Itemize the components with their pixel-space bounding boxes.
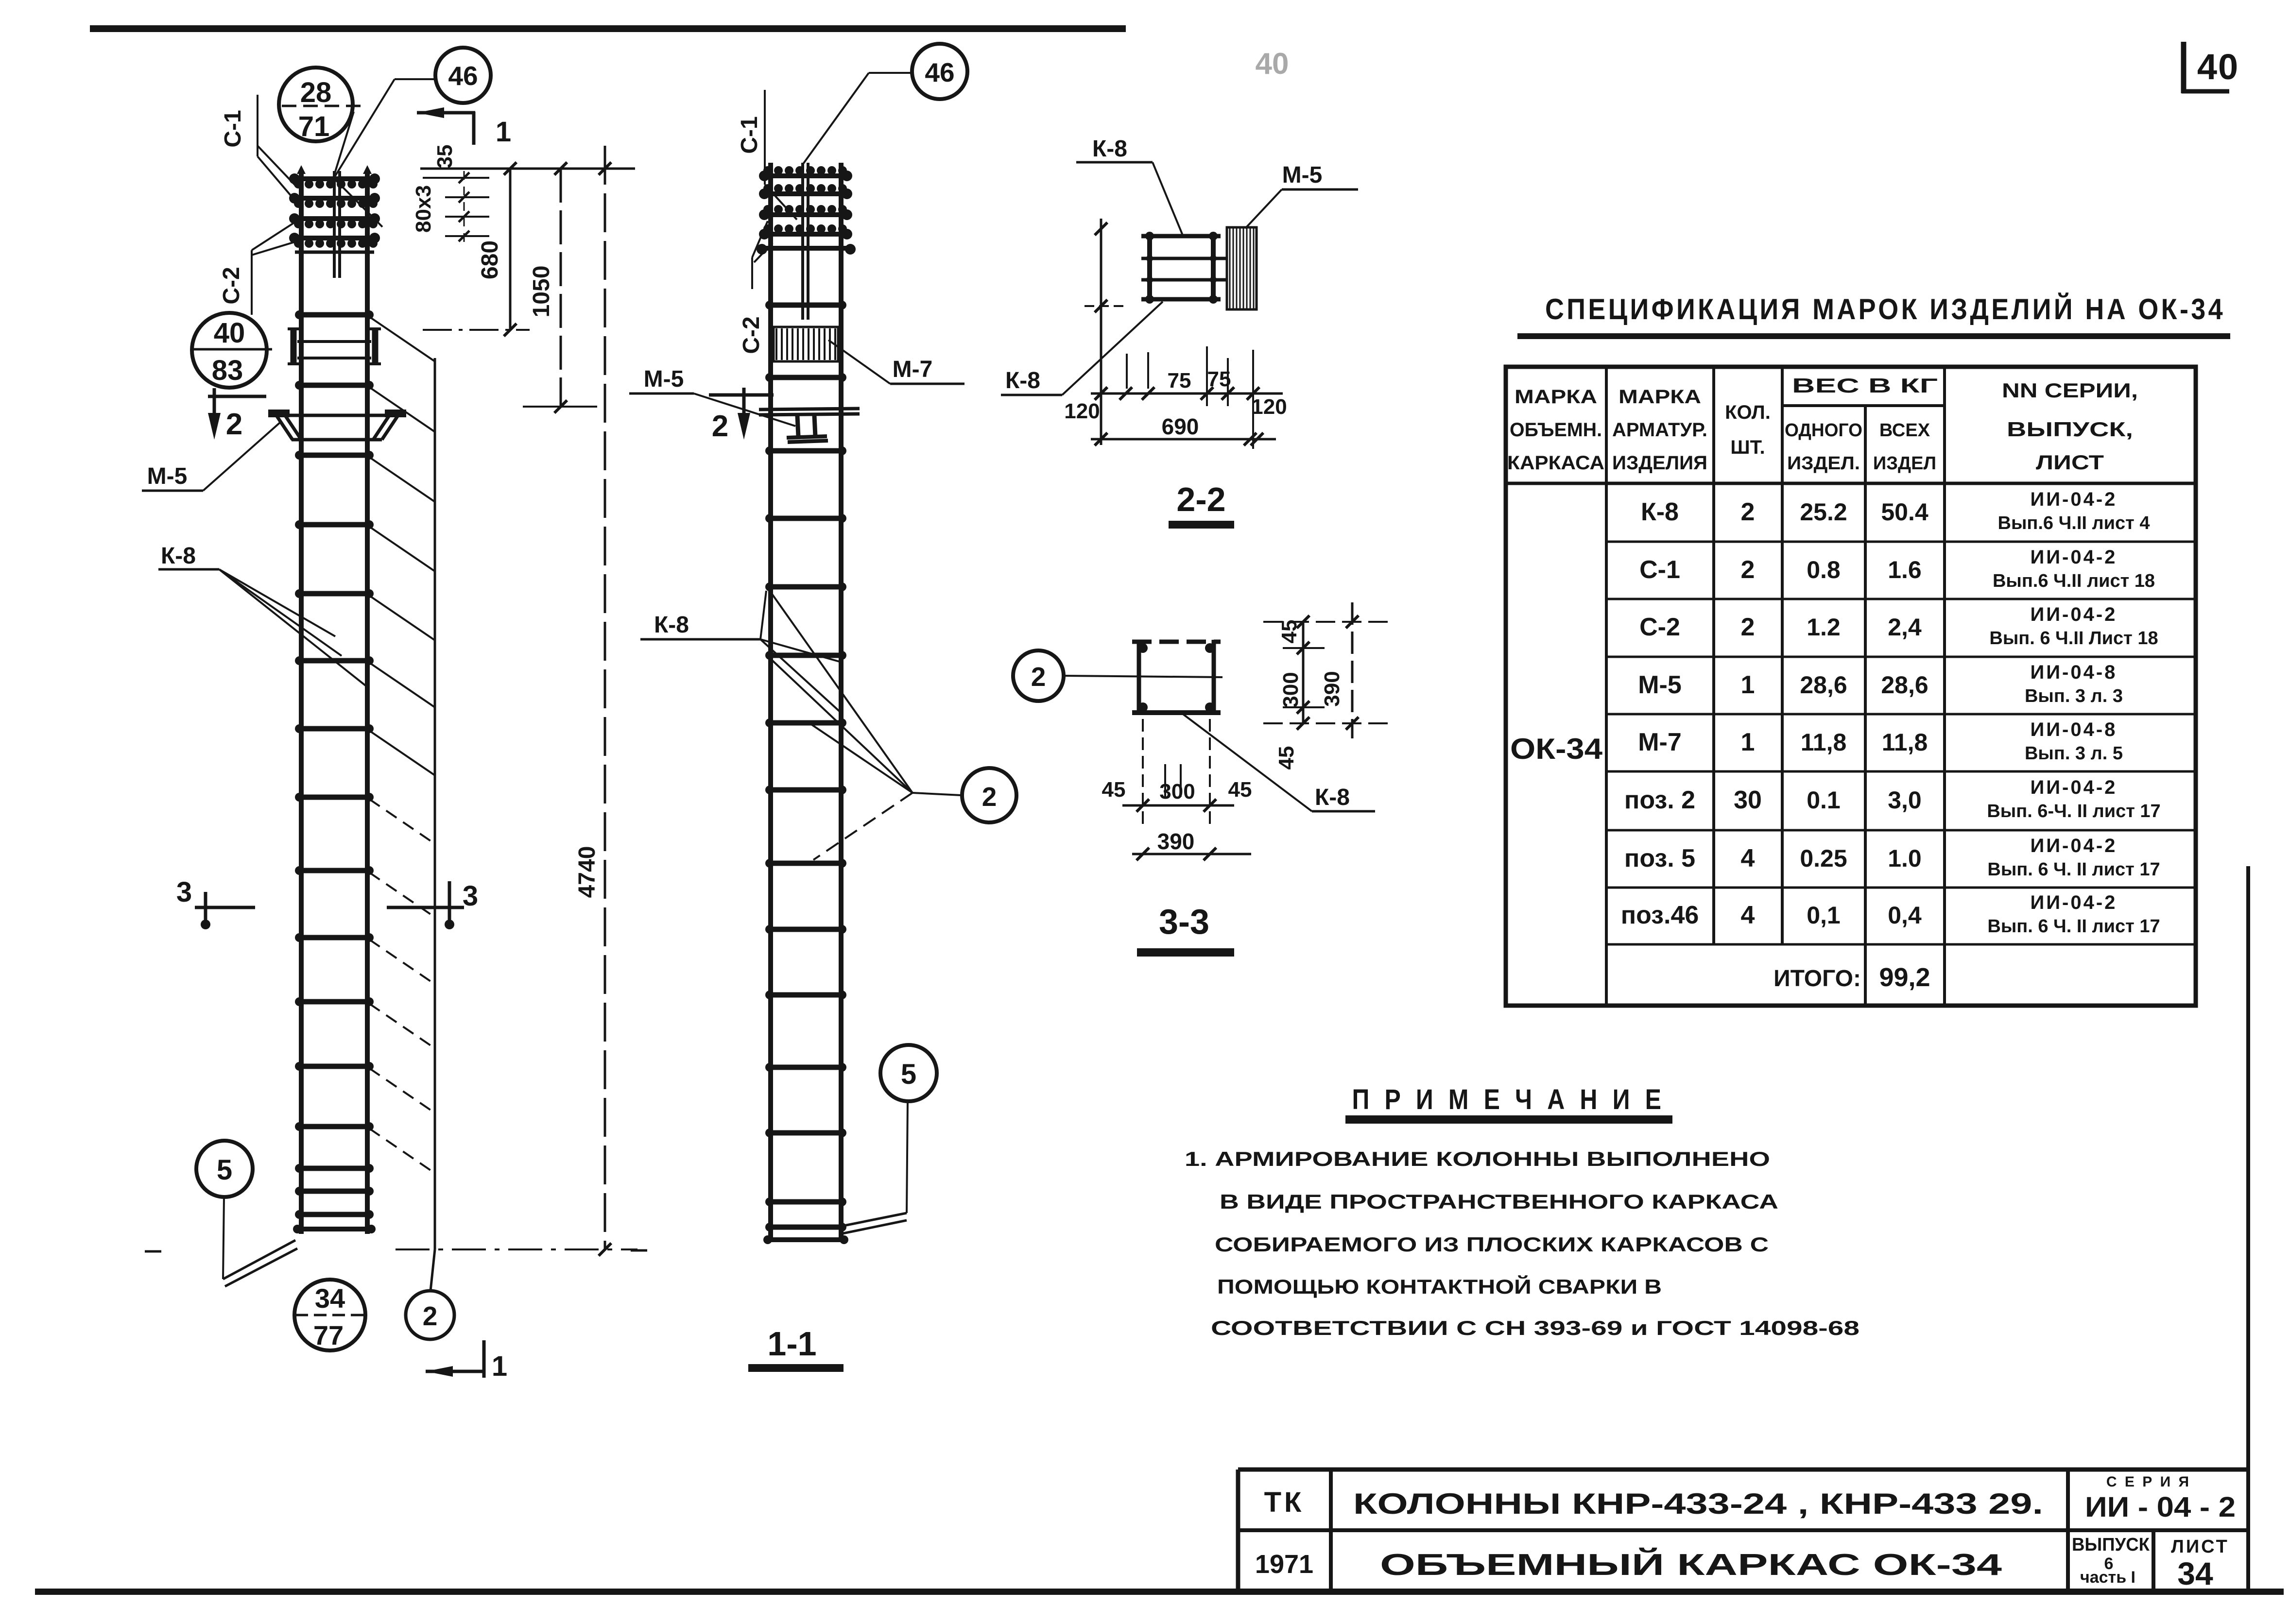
svg-text:ИЗДЕЛ.: ИЗДЕЛ. <box>1787 453 1860 474</box>
section 2-2: K-8 side bars <box>1150 232 1213 302</box>
label K-8 (left column) <box>158 543 368 687</box>
svg-text:АРМАТУР.: АРМАТУР. <box>1612 419 1707 441</box>
leader balloon 2 to square <box>1064 676 1222 677</box>
middle column: rungs <box>763 301 848 1244</box>
left column: hatch leader diagonals to collector <box>369 317 435 1173</box>
svg-text:ВЫПУСК,: ВЫПУСК, <box>2007 418 2133 441</box>
svg-text:С-2: С-2 <box>219 267 244 304</box>
svg-text:ИИ-04-8: ИИ-04-8 <box>2031 719 2118 740</box>
table header texts <box>1507 374 2138 474</box>
svg-text:1.2: 1.2 <box>1807 614 1841 641</box>
svg-text:КОЛ.: КОЛ. <box>1725 402 1771 423</box>
svg-text:4: 4 <box>1741 901 1755 929</box>
svg-text:34: 34 <box>315 1283 345 1314</box>
balloon 2 (bottom left) <box>406 1291 454 1339</box>
sheet right frame line <box>2246 866 2250 1591</box>
svg-text:40: 40 <box>214 317 245 349</box>
svg-text:28,6: 28,6 <box>1881 671 1928 699</box>
section mark 2 (right side of left column) <box>709 388 774 443</box>
svg-text:поз. 5: поз. 5 <box>1624 844 1695 872</box>
svg-text:ИИ-04-2: ИИ-04-2 <box>2031 835 2118 856</box>
table row ITOGO <box>1773 963 1930 992</box>
sheet top border line <box>90 25 1126 32</box>
section 3-3: square <box>1132 640 1221 715</box>
svg-text:2: 2 <box>1741 613 1755 641</box>
label M-5 (left column) <box>142 423 280 491</box>
left column: M-5 console trapezoid <box>268 410 406 440</box>
page number corner mark <box>2182 42 2229 93</box>
balloon 5 (middle) <box>880 1045 937 1101</box>
section 2-2: cross bars <box>1141 232 1227 304</box>
svg-text:ИИ-04-2: ИИ-04-2 <box>2031 892 2118 913</box>
caption 3-3 <box>1137 903 1234 957</box>
svg-text:11,8: 11,8 <box>1882 729 1928 756</box>
svg-text:М-7: М-7 <box>893 357 933 382</box>
svg-text:1. АРМИРОВАНИЕ КОЛОННЫ ВЫП: 1. АРМИРОВАНИЕ КОЛОННЫ ВЫПОЛНЕНО <box>1185 1147 1770 1170</box>
svg-text:3,0: 3,0 <box>1888 786 1922 814</box>
svg-text:С-1: С-1 <box>1639 556 1680 584</box>
bottom axis line <box>396 1248 637 1250</box>
svg-text:5: 5 <box>217 1154 232 1186</box>
title block seriya <box>2085 1474 2236 1523</box>
svg-text:ИИ-04-8: ИИ-04-8 <box>2031 662 2118 683</box>
section 3-3: bottom dims <box>1122 719 1251 860</box>
dim 80x3 extensions <box>445 171 489 243</box>
svg-text:45: 45 <box>1277 620 1301 644</box>
svg-text:ВЫПУСК: ВЫПУСК <box>2072 1535 2150 1555</box>
left column: top mesh C-1/C-2 zone <box>289 171 380 278</box>
left column: splice bars poz.5 with end plates <box>288 329 381 364</box>
label M-5 (section 2-2) <box>1245 162 1358 228</box>
svg-text:К-8: К-8 <box>161 543 196 569</box>
balloon 5 (left) <box>196 1141 253 1197</box>
title block list <box>2171 1537 2229 1591</box>
svg-text:2,4: 2,4 <box>1888 614 1922 641</box>
svg-text:КОЛОННЫ КНР-433-24 , КНР-433: КОЛОННЫ КНР-433-24 , КНР-433 29. <box>1353 1487 2043 1520</box>
section mark 1 (top) <box>417 107 511 148</box>
leader from collector to balloon 2 <box>430 1249 435 1291</box>
svg-text:С-1: С-1 <box>737 116 762 154</box>
svg-text:С-1: С-1 <box>220 110 246 147</box>
leader balloon 5 left <box>223 1197 297 1286</box>
dim line 4740 <box>604 146 606 1249</box>
svg-text:ИЗДЕЛ: ИЗДЕЛ <box>1873 453 1936 474</box>
svg-text:4740: 4740 <box>574 846 600 898</box>
svg-text:1971: 1971 <box>1255 1550 1313 1579</box>
svg-text:ОДНОГО: ОДНОГО <box>1785 420 1862 441</box>
leader C-1 <box>258 95 299 205</box>
table horizontal lines <box>1506 406 2196 944</box>
section 2-2: bottom dims <box>1091 346 1283 449</box>
svg-text:К-8: К-8 <box>1641 498 1679 526</box>
svg-text:Вып. 6 Ч. II лист 17: Вып. 6 Ч. II лист 17 <box>1987 859 2160 880</box>
svg-text:К-8: К-8 <box>1315 785 1350 810</box>
svg-text:300: 300 <box>1159 780 1195 803</box>
balloon 46 (middle) <box>912 44 967 99</box>
leader C-1 middle <box>765 90 797 220</box>
leader 46 to mesh <box>335 79 436 176</box>
svg-text:4: 4 <box>1741 844 1755 872</box>
notes heading underline <box>1345 1115 1672 1124</box>
svg-text:М-5: М-5 <box>1282 162 1323 188</box>
svg-text:NN СЕРИИ,: NN СЕРИИ, <box>2002 379 2138 402</box>
svg-text:С Е Р И Я: С Е Р И Я <box>2106 1474 2191 1490</box>
svg-text:ОБЪЕМНЫЙ КАРКАС ОК-34: ОБЪЕМНЫЙ КАРКАС ОК-34 <box>1380 1548 2002 1582</box>
dim end line 1050 <box>523 406 597 408</box>
svg-text:75: 75 <box>1168 369 1191 393</box>
svg-text:СПЕЦИФИКАЦИЯ МАРОК ИЗДЕЛИЙ: СПЕЦИФИКАЦИЯ МАРОК ИЗДЕЛИЙ НА ОК-34 <box>1545 293 2225 325</box>
svg-text:М-5: М-5 <box>1638 671 1682 699</box>
svg-text:СООТВЕТСТВИИ С СН 393-69: СООТВЕТСТВИИ С СН 393-69 и ГОСТ 14098-68 <box>1211 1316 1860 1339</box>
svg-text:В ВИДЕ ПРОСТРАНСТВЕННОГО К: В ВИДЕ ПРОСТРАНСТВЕННОГО КАРКАСА <box>1220 1190 1778 1213</box>
section mark 3 (right side of left column) <box>387 880 478 929</box>
middle column bottom cap <box>765 1237 847 1242</box>
svg-text:ВЕС В КГ: ВЕС В КГ <box>1792 374 1938 397</box>
svg-text:ОК-34: ОК-34 <box>1510 733 1603 765</box>
svg-text:390: 390 <box>1157 829 1195 854</box>
svg-text:МАРКА: МАРКА <box>1515 386 1597 408</box>
svg-text:ИИ-04-2: ИИ-04-2 <box>2031 777 2118 798</box>
svg-text:часть I: часть I <box>2080 1568 2135 1587</box>
svg-text:ЛИСТ: ЛИСТ <box>2036 451 2104 474</box>
section 3-3: right dims <box>1263 602 1390 738</box>
svg-text:ИИ-04-2: ИИ-04-2 <box>2031 547 2118 568</box>
svg-text:1.0: 1.0 <box>1888 845 1922 872</box>
table row поз. 2 <box>1624 777 2161 821</box>
svg-text:2: 2 <box>423 1301 438 1331</box>
label M-5 (middle) <box>629 366 795 426</box>
svg-text:2: 2 <box>712 410 728 443</box>
svg-text:28: 28 <box>300 77 332 108</box>
svg-text:40: 40 <box>2197 47 2239 87</box>
table row С-2 <box>1639 604 2158 649</box>
svg-text:2: 2 <box>1741 498 1755 526</box>
balloon 40/83 <box>192 313 272 388</box>
balloon 34/77 <box>294 1280 365 1350</box>
svg-text:3: 3 <box>463 880 478 912</box>
svg-text:300: 300 <box>1279 672 1303 707</box>
label M-7 <box>828 340 964 384</box>
svg-text:690: 690 <box>1162 414 1199 439</box>
table row поз.46 <box>1621 892 2160 937</box>
svg-text:Вып.6 Ч.II лист 18: Вып.6 Ч.II лист 18 <box>1993 571 2155 591</box>
svg-text:М-5: М-5 <box>147 463 188 489</box>
middle column: rail left <box>768 163 773 1242</box>
dim line 1050 <box>560 169 562 407</box>
left column: top end arrows <box>297 165 372 174</box>
svg-text:К-8: К-8 <box>654 612 689 638</box>
svg-text:0.1: 0.1 <box>1807 786 1841 814</box>
table row С-1 <box>1639 547 2155 591</box>
left column: bottom cap bar <box>294 1227 374 1231</box>
svg-text:поз. 2: поз. 2 <box>1624 786 1695 814</box>
leader balloon 5 middle <box>839 1101 908 1234</box>
table vertical lines <box>1606 367 1945 1006</box>
svg-text:40: 40 <box>1256 47 1289 81</box>
left column: rungs poz.2 <box>293 310 376 1233</box>
svg-text:45: 45 <box>1228 778 1252 802</box>
svg-text:ИИ - 04 - 2: ИИ - 04 - 2 <box>2085 1491 2236 1523</box>
label K-8 (middle) <box>640 591 843 714</box>
svg-text:ПОМОЩЬЮ КОНТАКТНОЙ СВАРКИ: ПОМОЩЬЮ КОНТАКТНОЙ СВАРКИ В <box>1217 1275 1662 1298</box>
svg-text:М-7: М-7 <box>1638 728 1682 756</box>
axis dash left margin <box>145 1250 161 1253</box>
label K-8 (section 2-2) <box>1076 136 1183 235</box>
svg-text:0,4: 0,4 <box>1888 902 1922 929</box>
svg-text:1: 1 <box>1741 728 1755 756</box>
dim extension top line <box>420 168 635 170</box>
svg-text:46: 46 <box>925 57 954 87</box>
axis dash middle column <box>631 1249 647 1252</box>
svg-text:КАРКАСА: КАРКАСА <box>1507 452 1604 474</box>
svg-text:30: 30 <box>1734 786 1762 814</box>
svg-text:ИИ-04-2: ИИ-04-2 <box>2031 489 2118 510</box>
table row К-8 <box>1641 489 2150 533</box>
label K-8 (section 2-2 lower) <box>1001 302 1163 395</box>
svg-text:71: 71 <box>298 111 330 142</box>
section mark 1 (bottom) <box>426 1340 507 1382</box>
svg-text:1: 1 <box>496 116 511 148</box>
svg-text:поз.46: поз.46 <box>1621 901 1699 929</box>
svg-text:МАРКА: МАРКА <box>1618 386 1701 408</box>
svg-text:1.6: 1.6 <box>1888 556 1922 583</box>
svg-text:50.4: 50.4 <box>1881 498 1928 526</box>
svg-text:45: 45 <box>1274 746 1298 770</box>
balloon 28/71 <box>279 68 362 142</box>
leader 28/71 to column <box>333 112 354 178</box>
svg-text:ШТ.: ШТ. <box>1730 437 1765 458</box>
svg-text:390: 390 <box>1320 671 1344 706</box>
svg-text:11,8: 11,8 <box>1801 729 1847 756</box>
svg-text:680: 680 <box>477 240 503 279</box>
svg-text:1: 1 <box>492 1350 507 1382</box>
svg-text:25.2: 25.2 <box>1800 498 1847 526</box>
svg-text:М-5: М-5 <box>644 366 684 392</box>
table row М-7 <box>1638 719 2123 764</box>
svg-text:ТК: ТК <box>1264 1487 1305 1518</box>
middle column: M-5 plate and I-beam <box>759 409 860 442</box>
section mark 2 (left side) <box>208 388 266 441</box>
svg-text:К-8: К-8 <box>1005 368 1040 393</box>
svg-text:1-1: 1-1 <box>767 1325 816 1363</box>
svg-text:Вып. 3 л. 3: Вып. 3 л. 3 <box>2025 686 2123 706</box>
svg-text:2: 2 <box>1741 556 1755 584</box>
leader C-2 middle <box>752 221 773 289</box>
table row М-5 <box>1638 662 2123 706</box>
leader fan balloon 2 middle <box>769 589 961 860</box>
svg-text:С-2: С-2 <box>739 316 764 354</box>
svg-text:1050: 1050 <box>529 266 554 318</box>
svg-text:Вып.6 Ч.II лист 4: Вып.6 Ч.II лист 4 <box>1998 513 2150 533</box>
middle column: top mesh <box>757 163 856 320</box>
svg-text:120: 120 <box>1251 395 1287 419</box>
sheet bottom border line <box>35 1589 2284 1595</box>
caption 2-2 <box>1169 480 1234 529</box>
leader C-2 <box>252 222 296 315</box>
svg-text:ОБЪЕМН.: ОБЪЕМН. <box>1510 419 1602 441</box>
svg-text:75: 75 <box>1207 367 1231 391</box>
svg-text:1: 1 <box>1741 671 1755 699</box>
table row поз. 5 <box>1624 835 2160 880</box>
svg-text:45: 45 <box>1102 778 1126 802</box>
dim line 680 <box>509 169 512 330</box>
balloon 2 (middle, fan) <box>962 768 1016 822</box>
svg-text:ВСЕХ: ВСЕХ <box>1879 420 1930 441</box>
left column: rail left (K-8 frame) <box>299 171 304 1234</box>
svg-text:ИИ-04-2: ИИ-04-2 <box>2031 604 2118 625</box>
svg-text:К-8: К-8 <box>1092 136 1127 162</box>
svg-text:Вып. 6 Ч. II лист 17: Вып. 6 Ч. II лист 17 <box>1987 916 2160 937</box>
svg-text:5: 5 <box>901 1059 916 1090</box>
svg-text:П Р И М Е Ч А Н И Е: П Р И М Е Ч А Н И Е <box>1352 1084 1666 1115</box>
svg-text:2: 2 <box>226 408 242 441</box>
svg-text:Вып. 3 л. 5: Вып. 3 л. 5 <box>2025 743 2123 764</box>
section mark 3 (left side) <box>176 876 255 929</box>
svg-text:2-2: 2-2 <box>1176 480 1225 518</box>
middle column: M-7 hatched block <box>774 327 838 361</box>
svg-text:28,6: 28,6 <box>1800 671 1847 699</box>
balloon 46 (left) <box>435 48 491 103</box>
svg-text:80x3: 80x3 <box>412 185 435 233</box>
caption 1-1 <box>748 1325 844 1372</box>
svg-text:46: 46 <box>448 61 478 91</box>
svg-text:120: 120 <box>1064 399 1100 423</box>
leader 46 middle <box>802 73 912 165</box>
svg-text:0,1: 0,1 <box>1807 902 1841 929</box>
left column: rail right (K-8 frame) <box>365 171 370 1234</box>
svg-text:СОБИРАЕМОГО ИЗ ПЛОСКИХ КАР: СОБИРАЕМОГО ИЗ ПЛОСКИХ КАРКАСОВ С <box>1215 1233 1769 1256</box>
svg-text:77: 77 <box>313 1320 344 1350</box>
title block frame <box>1238 1470 2248 1591</box>
section 2-2: M-5 plate hatched <box>1227 227 1257 309</box>
svg-text:35: 35 <box>433 145 457 169</box>
svg-text:3: 3 <box>176 876 192 908</box>
svg-text:2: 2 <box>1031 662 1046 692</box>
svg-text:0.8: 0.8 <box>1807 556 1841 583</box>
left column: collector line <box>434 358 436 1249</box>
table frame <box>1506 367 2196 1006</box>
svg-text:ИТОГО:: ИТОГО: <box>1773 966 1861 991</box>
dim 35 extension <box>423 177 489 179</box>
svg-text:ИЗДЕЛИЯ: ИЗДЕЛИЯ <box>1612 452 1707 474</box>
svg-text:ЛИСТ: ЛИСТ <box>2171 1537 2229 1557</box>
svg-text:2: 2 <box>982 782 997 812</box>
svg-text:83: 83 <box>212 355 243 386</box>
svg-text:99,2: 99,2 <box>1879 963 1930 992</box>
svg-text:Вып. 6 Ч.II Лист 18: Вып. 6 Ч.II Лист 18 <box>1989 628 2158 649</box>
svg-text:34: 34 <box>2177 1556 2213 1591</box>
svg-text:Вып. 6-Ч. II лист 17: Вып. 6-Ч. II лист 17 <box>1987 801 2160 821</box>
balloon 2 (section 3-3) <box>1013 650 1064 701</box>
middle column: rail right <box>839 163 844 1242</box>
svg-text:С-2: С-2 <box>1639 613 1680 641</box>
svg-text:3-3: 3-3 <box>1159 903 1209 941</box>
section 2-2: left dim <box>1085 219 1123 445</box>
svg-text:0.25: 0.25 <box>1800 845 1847 872</box>
title block vypusk <box>2072 1535 2150 1587</box>
label K-8 (section 3-3) <box>1182 713 1375 811</box>
dim axis line at 680 <box>423 329 530 331</box>
table title underline <box>1517 333 2230 339</box>
